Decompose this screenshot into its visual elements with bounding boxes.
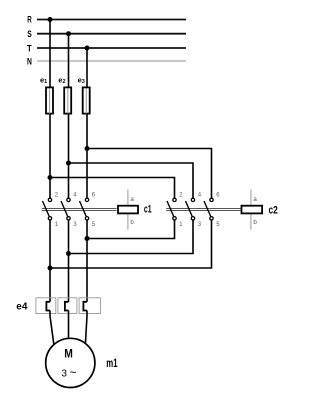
junction motor lead V / c2 pin 3 — [66, 251, 71, 256]
pin 4 (c2) — [198, 192, 202, 198]
mechanical linkage c1 — [42, 209, 117, 211]
svg-text:R: R — [27, 14, 32, 24]
wire phase L2 from S to fuse e2 — [68, 34, 70, 87]
svg-text:N: N — [27, 57, 32, 67]
pin 6 (c2) — [216, 192, 220, 198]
svg-text:c2: c2 — [269, 204, 278, 216]
svg-text:M: M — [64, 347, 73, 361]
coil c1 — [118, 190, 138, 230]
svg-text:b: b — [253, 219, 257, 226]
contact c1 pole 5-6 — [80, 198, 89, 220]
pin 4 (c1) — [73, 192, 77, 198]
pin 1 (c2) — [179, 222, 183, 228]
junction L3 branch to c2 pin 6 — [85, 146, 90, 151]
pin a (c2 coil) — [253, 196, 257, 203]
heater element e4 phase W — [83, 302, 87, 311]
wire e4 to motor terminal V — [68, 311, 70, 340]
wire L2 branch to c2 pin 4 — [69, 163, 194, 198]
label e1 — [40, 75, 47, 85]
pin 6 (c1) — [92, 192, 96, 198]
wire R rail — [37, 19, 186, 21]
label m1 — [106, 356, 117, 370]
svg-text:S: S — [27, 29, 32, 39]
contact c1 pole 3-4 — [61, 198, 70, 220]
junction motor lead U / c2 pin 5 — [48, 266, 53, 271]
wire N rail — [37, 60, 186, 62]
wire L3 fuse e3 to contactor c1 pin 6 — [86, 114, 88, 198]
wire c1 pin 1 down to overload e4 — [49, 220, 51, 301]
label c1 — [144, 204, 152, 216]
wire L1 branch to c2 pin 2 — [50, 178, 175, 198]
wire c2 pin 1 to motor lead W (junction at x=87) — [87, 220, 175, 238]
label e2 — [58, 75, 65, 85]
pin b (c2 coil) — [253, 219, 257, 226]
pin 3 (c2) — [198, 222, 202, 228]
svg-text:a: a — [253, 196, 257, 203]
pin 2 (c2) — [179, 192, 183, 198]
svg-text:e4: e4 — [16, 302, 28, 313]
svg-text:m1: m1 — [106, 356, 117, 370]
motor m1 — [46, 338, 95, 387]
junction L1 branch to c2 pin 2 — [48, 175, 53, 180]
fuse e2 — [64, 87, 71, 113]
label e3 — [78, 75, 85, 85]
node T — [27, 43, 32, 53]
pin b (c1 coil) — [130, 219, 134, 226]
wire L2 fuse e2 to contactor c1 pin 4 — [68, 114, 70, 198]
coil c2 — [242, 190, 263, 230]
mechanical linkage c2 — [166, 209, 240, 211]
wire e4 to motor terminal U — [50, 311, 54, 345]
pin 5 (c2) — [216, 222, 220, 228]
svg-text:b: b — [130, 219, 134, 226]
wire c2 pin 5 to motor lead U (junction at x=50) — [50, 220, 212, 268]
junction L2 branch to c2 pin 4 — [66, 161, 71, 166]
pin 5 (c1) — [92, 222, 96, 228]
pin 2 (c1) — [55, 192, 59, 198]
pin 1 (c1) — [55, 222, 59, 228]
wire phase L1 from R to fuse e1 — [49, 20, 51, 88]
wire L3 branch to c2 pin 6 — [87, 149, 212, 198]
wire c1 pin 5 down to overload e4 — [86, 220, 88, 301]
node S — [27, 29, 32, 39]
node N — [27, 57, 32, 67]
label e4 — [16, 302, 28, 313]
wire c2 pin 3 to motor lead V (junction at x=68.5) — [69, 220, 194, 253]
pin 3 (c1) — [73, 222, 77, 228]
svg-text:T: T — [27, 43, 32, 53]
label c2 — [269, 204, 278, 216]
fuse e1 — [46, 87, 53, 113]
pin a (c1 coil) — [130, 196, 134, 203]
wire c1 pin 3 down to overload e4 — [68, 220, 70, 301]
svg-text:a: a — [130, 196, 134, 203]
contact c1 pole 1-2 — [43, 198, 52, 220]
heater element e4 phase V — [65, 302, 69, 311]
wire T rail — [37, 47, 186, 49]
junction on R rail — [48, 17, 53, 22]
wire phase L3 from T to fuse e3 — [86, 48, 88, 87]
contact c2 pole 1-2 — [167, 198, 176, 220]
contact c2 pole 5-6 — [204, 198, 213, 220]
node R — [27, 14, 32, 24]
wire e4 to motor terminal W — [85, 311, 87, 344]
overload relay e4 housing — [36, 298, 101, 314]
junction on S rail — [66, 31, 71, 36]
contact c2 pole 3-4 — [186, 198, 195, 220]
wire L1 fuse e1 to contactor c1 pin 2 — [49, 114, 51, 198]
junction motor lead W / c2 pin 1 — [85, 236, 90, 241]
svg-text:3~: 3~ — [61, 367, 76, 379]
svg-text:c1: c1 — [144, 204, 152, 216]
junction on T rail — [85, 46, 90, 51]
wire S rail — [37, 33, 186, 35]
heater element e4 phase U — [46, 302, 50, 311]
fuse e3 — [83, 87, 90, 113]
